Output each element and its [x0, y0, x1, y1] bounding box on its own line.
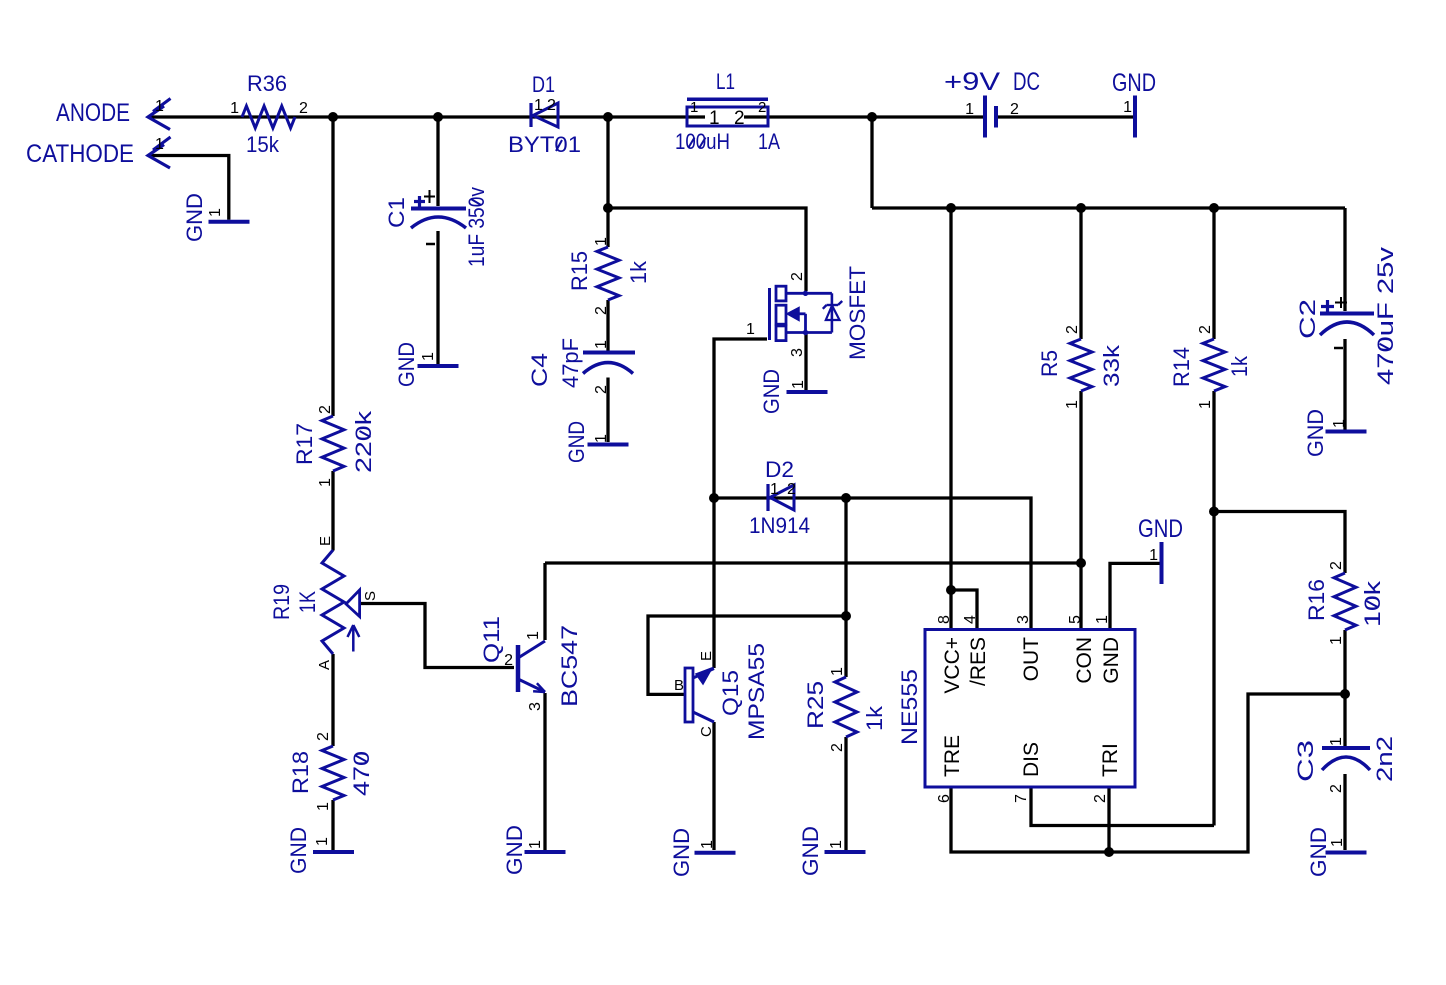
wire: DIS pin 7 to R14	[1031, 787, 1214, 826]
wire: CATHODE pin to ground	[150, 156, 229, 220]
wire: R14 down to DIS net	[1212, 391, 1215, 826]
junction at (1081,563)	[1076, 558, 1086, 568]
svg-text:GND: GND	[1306, 827, 1331, 877]
svg-text:+9V: +9V	[944, 68, 1000, 96]
svg-text:1: 1	[790, 380, 807, 389]
ground: Q15 GND	[669, 828, 736, 877]
svg-text:1: 1	[315, 802, 332, 811]
inductor L1 100uH 1A	[675, 69, 780, 154]
junction at (951,208)	[946, 203, 956, 213]
svg-text:1k: 1k	[862, 705, 887, 731]
svg-text:1: 1	[593, 434, 610, 443]
svg-text:2: 2	[317, 405, 334, 414]
svg-text:GND: GND	[564, 421, 589, 463]
svg-text:/RES: /RES	[967, 637, 990, 686]
svg-text:CATHODE: CATHODE	[26, 140, 134, 168]
junction at (714,498)	[709, 493, 719, 503]
svg-text:1: 1	[1123, 99, 1132, 116]
svg-text:GND: GND	[286, 827, 311, 874]
wire: Q11 collector to CON net	[545, 561, 1081, 564]
svg-text:GND: GND	[1100, 637, 1123, 684]
junction at (608,117)	[603, 112, 613, 122]
svg-text:MOSFET: MOSFET	[845, 266, 870, 360]
ground: cathode GND	[182, 193, 250, 242]
wire: MOSFET source to ground	[804, 334, 807, 390]
wire: V+ rail to NE555 VCC pin 8	[949, 208, 952, 629]
wire: V+ rail to R14	[1212, 208, 1215, 339]
svg-text:TRI: TRI	[1099, 743, 1122, 777]
svg-text:3: 3	[789, 348, 806, 357]
ground: MOSFET source GND	[759, 369, 828, 414]
svg-text:1K: 1K	[295, 591, 320, 613]
svg-text:1: 1	[829, 667, 846, 676]
diode D1 BYT01	[508, 72, 581, 157]
svg-text:C: C	[698, 726, 715, 737]
ground: C2 GND	[1303, 409, 1367, 457]
svg-text:2: 2	[1092, 794, 1109, 803]
svg-text:C3: C3	[1293, 740, 1318, 782]
svg-text:1: 1	[699, 840, 716, 849]
wire: Q15 collector to ground	[712, 722, 715, 850]
wire: node D2 right down to R25 node	[844, 498, 847, 616]
wire: C4 bottom to ground	[606, 378, 609, 443]
resistor R15 1k	[567, 237, 651, 315]
svg-text:R19: R19	[269, 584, 294, 620]
connector pin CATHODE	[26, 136, 171, 168]
svg-text:2: 2	[1328, 561, 1345, 570]
svg-text:1: 1	[230, 100, 239, 117]
svg-text:BC547: BC547	[557, 625, 582, 707]
wire: pot wiper to Q11 base	[360, 604, 514, 668]
svg-text:1: 1	[527, 840, 544, 849]
wire: Q15 emitter drop	[712, 498, 715, 668]
wire: R18 to ground	[331, 800, 334, 850]
svg-text:1: 1	[317, 478, 334, 487]
junction at (1214,208)	[1209, 203, 1219, 213]
wire: +9V drop and V+ rail	[872, 117, 1345, 208]
wire: top bus down to R17	[331, 117, 334, 416]
battery +9V DC	[944, 68, 1040, 138]
wire: D2 to NE555 OUT pin	[846, 498, 1031, 629]
svg-text:TRE: TRE	[941, 735, 964, 777]
resistor R18 470	[288, 732, 374, 811]
svg-text:3: 3	[1015, 615, 1032, 624]
svg-text:1: 1	[1064, 400, 1081, 409]
svg-text:GND: GND	[502, 825, 527, 875]
svg-text:BYT01: BYT01	[508, 132, 581, 157]
svg-text:2: 2	[299, 100, 308, 117]
wire: C3 top	[1343, 694, 1346, 746]
svg-text:1: 1	[1329, 838, 1346, 847]
svg-text:R14: R14	[1169, 347, 1194, 387]
junction at (1214,511.5)	[1209, 507, 1219, 517]
junction at (1109,852)	[1104, 847, 1114, 857]
svg-text:VCC+: VCC+	[941, 637, 964, 694]
wire: battery plate2 to GND power port	[998, 115, 1133, 118]
svg-text:2: 2	[789, 272, 806, 281]
svg-text:1: 1	[534, 97, 543, 114]
svg-text:2: 2	[1010, 101, 1019, 118]
diode D2 1N914	[749, 457, 810, 538]
svg-text:2: 2	[1328, 784, 1345, 793]
capacitor C2 470uF 25v	[1295, 247, 1398, 385]
svg-text:2n2: 2n2	[1372, 736, 1397, 782]
wire: R15 top stub	[606, 208, 609, 247]
resistor R25 1k	[803, 667, 887, 752]
svg-text:2: 2	[547, 97, 556, 114]
svg-text:D1: D1	[532, 72, 555, 97]
wire: top bus from ANODE pin to battery	[150, 115, 983, 118]
svg-text:470uF 25v: 470uF 25v	[1373, 247, 1398, 385]
junction at (333,117)	[328, 112, 338, 122]
svg-text:1: 1	[1197, 400, 1214, 409]
connector pin ANODE	[56, 98, 171, 130]
svg-text:MPSA55: MPSA55	[744, 643, 769, 740]
svg-text:R15: R15	[567, 251, 592, 291]
capacitor C1 1uF 350v	[384, 187, 489, 267]
svg-text:2: 2	[787, 481, 796, 498]
junction at (846,498)	[841, 493, 851, 503]
svg-text:2: 2	[734, 108, 745, 129]
svg-text:1: 1	[770, 481, 779, 498]
svg-text:1: 1	[1331, 419, 1348, 428]
svg-text:2: 2	[758, 99, 766, 116]
ground: top GND power port	[1112, 69, 1156, 138]
svg-text:1: 1	[420, 352, 437, 361]
svg-text:2: 2	[593, 306, 610, 315]
svg-text:2: 2	[315, 732, 332, 741]
svg-text:GND: GND	[182, 193, 207, 242]
svg-text:2: 2	[829, 743, 846, 752]
svg-text:15k: 15k	[246, 132, 280, 157]
wire: TRE pin 6 to R16/C3 node	[951, 694, 1345, 852]
svg-text:R16: R16	[1304, 579, 1329, 621]
svg-text:1N914: 1N914	[749, 513, 810, 538]
svg-text:C4: C4	[527, 353, 552, 387]
svg-text:1: 1	[593, 237, 610, 246]
wire: rail segment to MOSFET drain	[608, 208, 806, 291]
wire: NE555 GND pin 1 to ground port	[1110, 563, 1160, 629]
svg-text:8: 8	[936, 615, 953, 624]
svg-text:7: 7	[1013, 794, 1030, 803]
resistor R14 1k	[1169, 325, 1252, 409]
svg-text:6: 6	[936, 794, 953, 803]
capacitor C4 47pF	[527, 338, 635, 394]
wire: TRI pin 2 down	[1107, 787, 1110, 852]
svg-text:C1: C1	[384, 197, 409, 228]
potentiometer R19 1K	[269, 536, 379, 670]
svg-text:L1: L1	[716, 69, 735, 94]
svg-text:D2: D2	[765, 457, 794, 482]
svg-text:1: 1	[155, 136, 164, 153]
svg-text:1: 1	[1328, 636, 1345, 645]
svg-text:2: 2	[1197, 325, 1214, 334]
svg-text:1: 1	[690, 99, 698, 116]
junction at (608,208)	[603, 203, 613, 213]
transistor MOSFET	[746, 266, 870, 360]
wire: D2 net segment	[714, 496, 846, 499]
ground: C3 GND	[1306, 827, 1367, 877]
svg-text:DIS: DIS	[1020, 742, 1043, 777]
resistor R16 10k	[1304, 561, 1385, 645]
junction at (846,616)	[841, 611, 851, 621]
svg-text:2: 2	[1064, 325, 1081, 334]
svg-text:1: 1	[746, 321, 755, 338]
svg-text:4: 4	[962, 615, 979, 624]
junction at (1081,208)	[1076, 203, 1086, 213]
svg-text:B: B	[674, 677, 684, 694]
svg-text:1k: 1k	[1227, 355, 1252, 377]
svg-text:Q15: Q15	[718, 670, 743, 716]
svg-text:E: E	[698, 651, 715, 661]
svg-text:1uF 350v: 1uF 350v	[464, 187, 489, 267]
svg-text:33k: 33k	[1099, 344, 1124, 387]
wire: R17 to R19	[331, 471, 334, 551]
svg-text:1A: 1A	[758, 129, 780, 154]
wire: C3 bottom to ground	[1343, 774, 1346, 850]
svg-text:1: 1	[314, 837, 331, 846]
wire: top bus down to C1	[436, 117, 439, 206]
svg-text:C2: C2	[1295, 299, 1320, 339]
svg-text:2: 2	[504, 652, 513, 669]
svg-text:2: 2	[593, 385, 610, 394]
svg-text:GND: GND	[669, 828, 694, 877]
op-amp U1 NE555 timer	[897, 615, 1135, 803]
resistor R17 220k	[292, 405, 376, 487]
resistor R36 15k	[230, 71, 308, 157]
svg-text:GND: GND	[1138, 515, 1183, 543]
svg-text:OUT: OUT	[1020, 637, 1043, 682]
ground: NE555 GND power port	[1138, 515, 1183, 584]
wire: R16 bottom to node	[1343, 630, 1346, 694]
svg-text:R18: R18	[288, 751, 313, 794]
wire: pin8 to pin4 tie	[951, 590, 977, 629]
svg-text:1: 1	[828, 840, 845, 849]
svg-text:S: S	[362, 591, 379, 601]
svg-text:R36: R36	[247, 71, 287, 96]
svg-text:3: 3	[527, 702, 544, 711]
svg-text:1: 1	[207, 208, 224, 217]
wire: C2 top	[1343, 208, 1346, 311]
wire: Q11 emitter to ground	[543, 693, 546, 850]
wire: MOSFET gate lead	[714, 339, 767, 498]
svg-text:1: 1	[155, 98, 164, 115]
svg-text:1: 1	[1149, 547, 1158, 564]
wire: Q15 base loop	[648, 616, 846, 694]
wire: R5 to CON pin 5	[1079, 391, 1082, 629]
wire: C1 bottom to ground	[436, 231, 439, 364]
svg-text:GND: GND	[394, 342, 419, 387]
wire: R19 to R18	[331, 654, 334, 746]
wire: top bus down to rail node at R15	[606, 117, 609, 208]
svg-text:1: 1	[525, 631, 542, 640]
svg-text:GND: GND	[1303, 409, 1328, 457]
ground: C1 GND	[394, 342, 459, 387]
ground: C4 GND	[564, 421, 629, 463]
junction at (951,590)	[946, 585, 956, 595]
svg-text:A: A	[316, 660, 333, 670]
svg-text:R25: R25	[803, 681, 828, 729]
junction at (872,117)	[867, 112, 877, 122]
junction at (1345,694)	[1340, 689, 1350, 699]
svg-text:R5: R5	[1037, 350, 1062, 377]
wire: node to R25 top	[844, 616, 847, 677]
svg-text:47pF: 47pF	[558, 338, 583, 388]
junction at (438,117)	[433, 112, 443, 122]
wire: R25 bottom to ground	[844, 737, 847, 850]
svg-text:1: 1	[965, 101, 974, 118]
svg-text:1k: 1k	[626, 260, 651, 284]
svg-text:NE555: NE555	[897, 669, 922, 745]
capacitor C3 2n2	[1293, 736, 1397, 793]
svg-text:DC: DC	[1013, 68, 1040, 96]
svg-text:GND: GND	[759, 369, 784, 414]
svg-text:220k: 220k	[351, 410, 376, 473]
wire: node to R16 top	[1214, 512, 1345, 574]
wire: V+ rail to R5	[1079, 208, 1082, 339]
svg-text:1: 1	[709, 108, 720, 129]
wire: C2 bottom to ground	[1343, 339, 1346, 430]
svg-text:GND: GND	[798, 826, 823, 876]
svg-text:1: 1	[1328, 737, 1345, 746]
svg-text:1: 1	[593, 340, 610, 349]
svg-text:ANODE: ANODE	[56, 99, 130, 127]
svg-text:GND: GND	[1112, 69, 1156, 97]
wire: Q11 collector up	[543, 563, 546, 640]
svg-text:Q11: Q11	[479, 616, 504, 663]
transistor Q15 MPSA55	[674, 643, 769, 740]
transistor Q11 BC547	[479, 616, 582, 711]
wire: R15 to C4	[606, 300, 609, 351]
ground: R25 GND	[798, 826, 866, 876]
svg-text:CON: CON	[1073, 637, 1096, 684]
svg-text:1: 1	[1094, 615, 1111, 624]
ground: Q11 GND	[502, 825, 566, 875]
svg-text:R17: R17	[292, 423, 317, 465]
svg-text:E: E	[317, 536, 334, 546]
resistor R5 33k	[1037, 325, 1124, 409]
ground: R18 GND	[286, 827, 354, 874]
svg-text:5: 5	[1067, 615, 1084, 624]
